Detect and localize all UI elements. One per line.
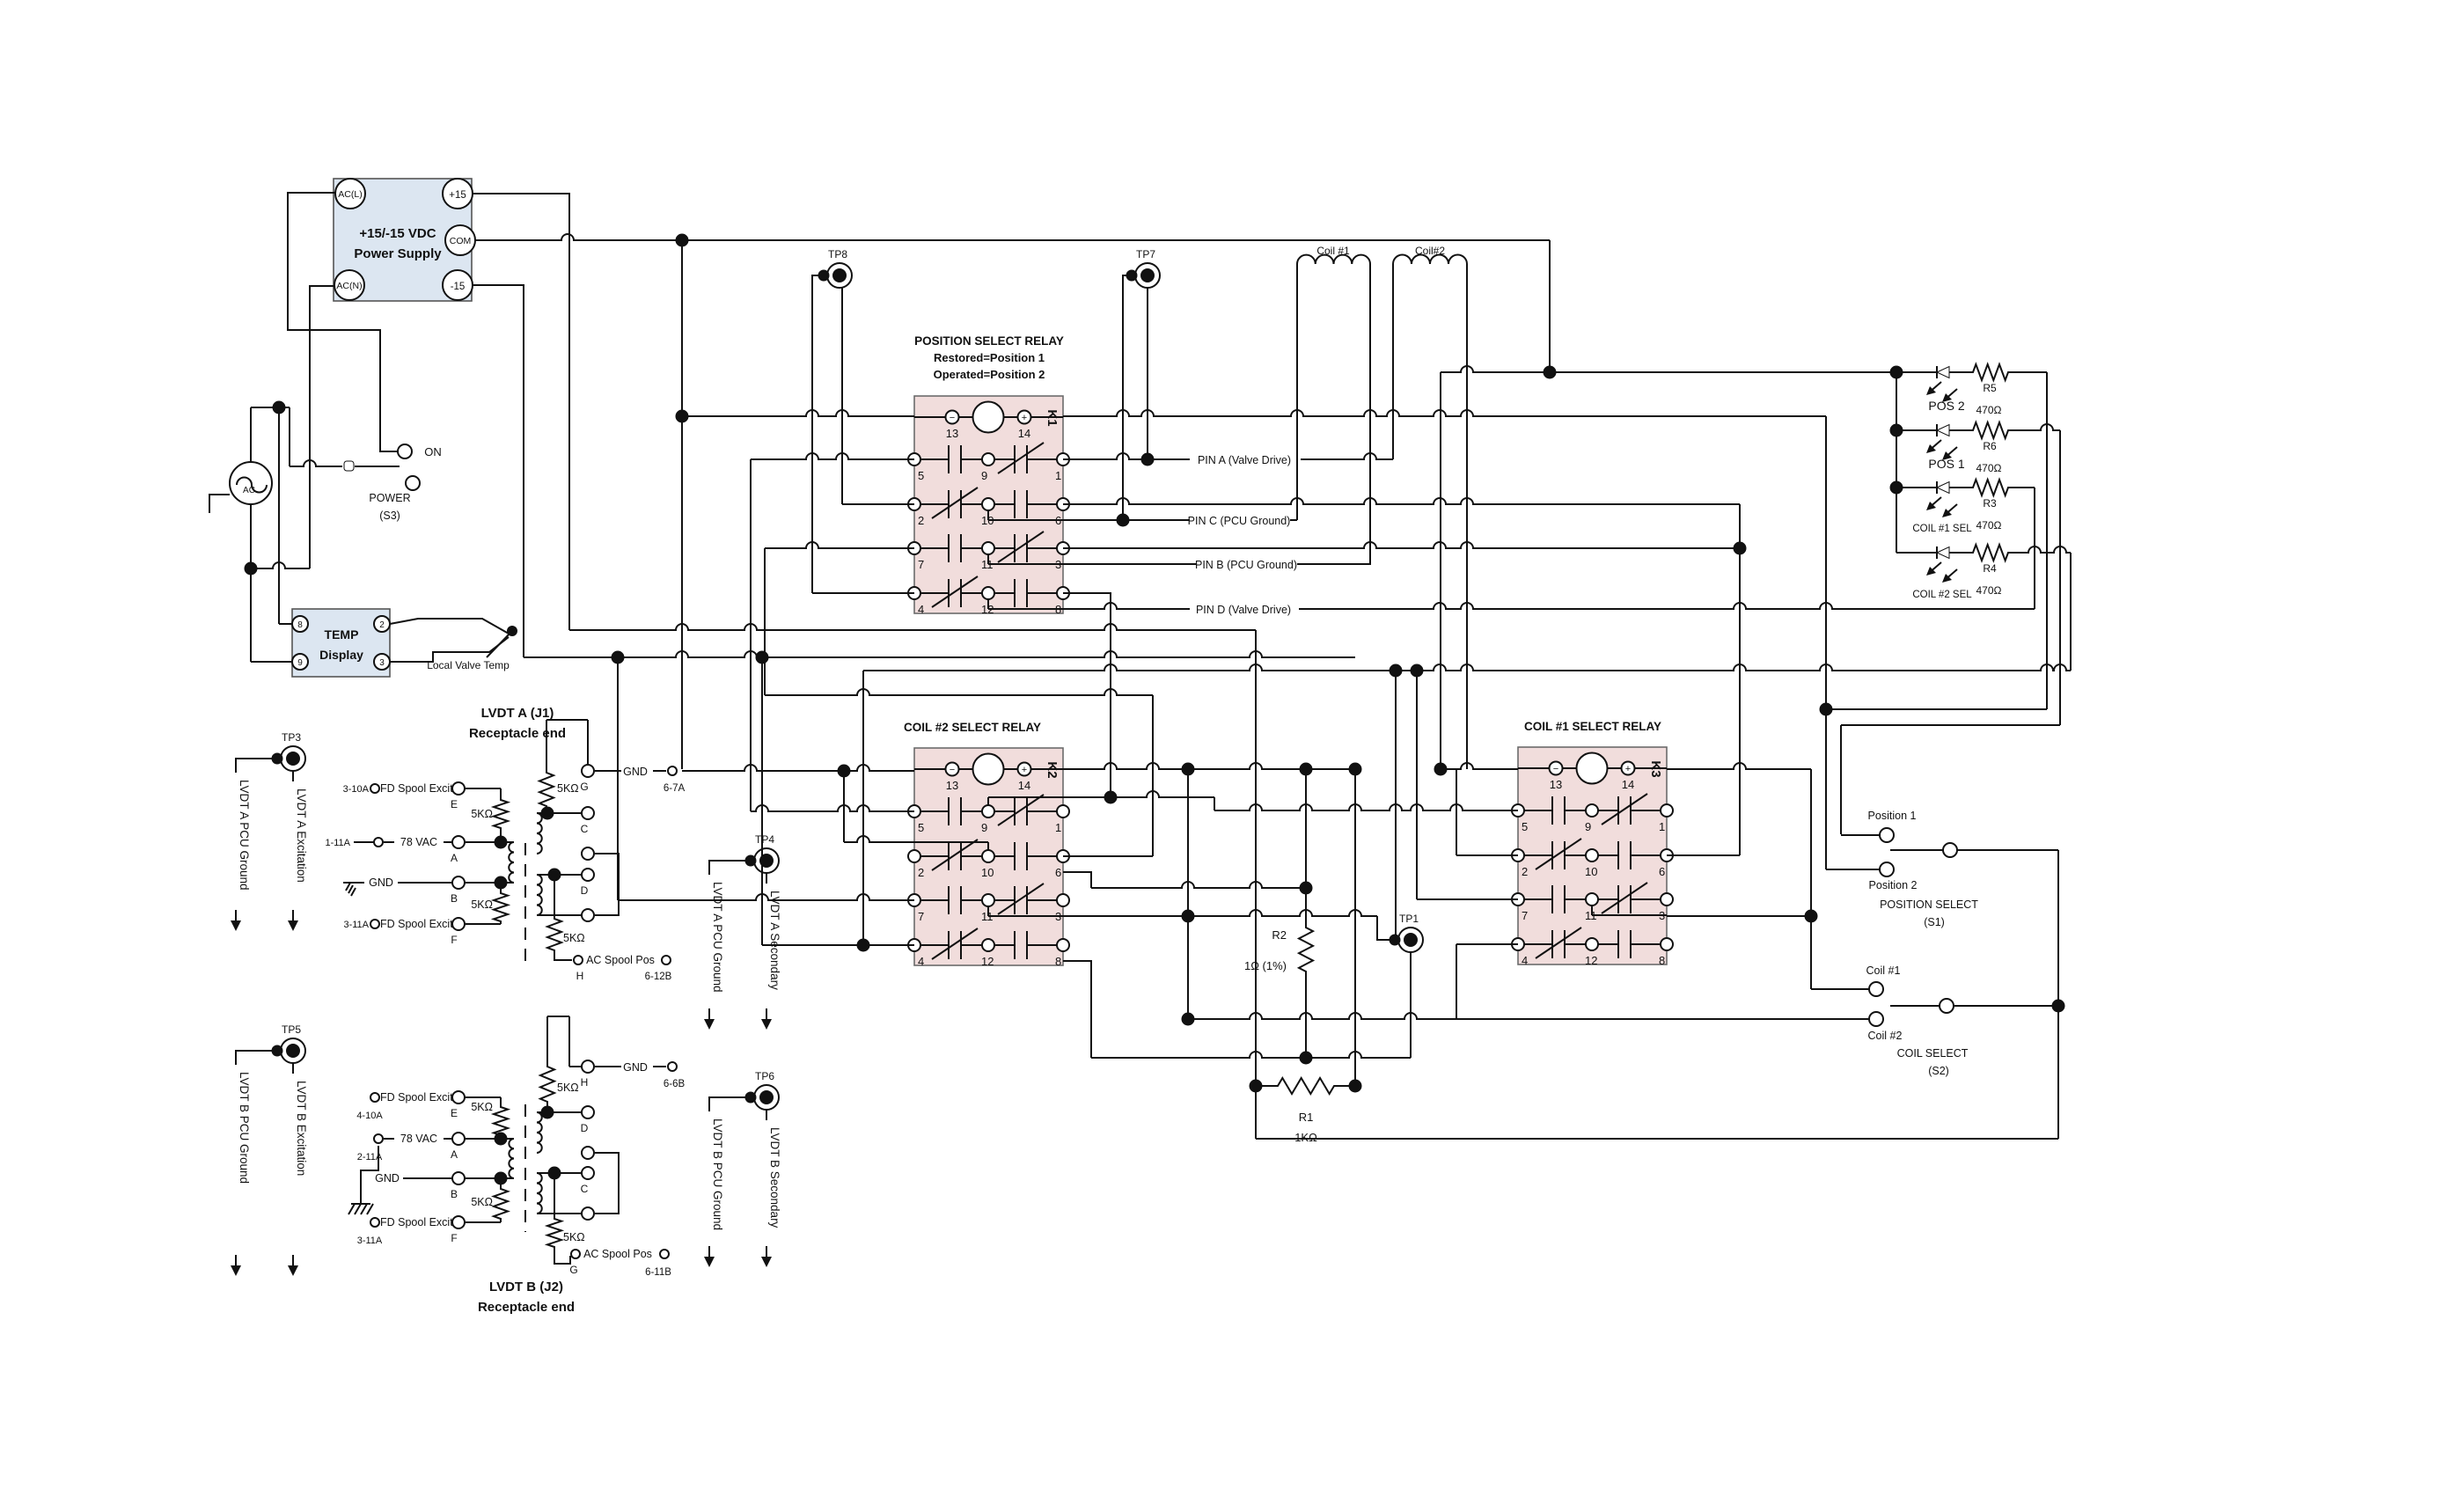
coil2 right leg [1466,264,1468,769]
svg-text:K3: K3 [1648,760,1663,777]
svg-text:6-12B: 6-12B [645,972,672,982]
wire AC(L) to ON [288,193,398,451]
svg-text:(S2): (S2) [1928,1065,1949,1077]
svg-text:TP1: TP1 [1399,913,1419,925]
svg-text:1: 1 [1659,820,1665,833]
svg-text:5: 5 [918,821,924,834]
svg-text:Receptacle end: Receptacle end [478,1300,575,1315]
wire K2 pin10 riser [844,771,914,842]
5K resistor LVDT B lower-left [471,1178,508,1222]
svg-text:Position 2: Position 2 [1869,879,1918,891]
svg-text:POS 1: POS 1 [1928,457,1964,471]
svg-text:F: F [451,1232,457,1244]
svg-text:12: 12 [981,955,994,968]
svg-text:12: 12 [1585,954,1597,967]
svg-text:5: 5 [918,469,924,482]
LVDT B title [478,1280,575,1315]
svg-text:D: D [581,1122,589,1134]
svg-text:H: H [581,1076,589,1089]
wire K1 pin4 line [812,592,914,594]
svg-text:COM: COM [450,236,472,246]
svg-text:TP7: TP7 [1136,248,1155,260]
coil1 right leg [1369,264,1371,565]
wire 824 line (POS1 LED return) [1841,725,2060,834]
svg-text:5KΩ: 5KΩ [563,1231,585,1243]
LVDT A pin G [582,765,594,777]
svg-text:POWER: POWER [369,492,410,504]
label LVDT A PCU Ground (left) [231,780,251,931]
svg-text:Restored=Position 1: Restored=Position 1 [934,351,1045,364]
wire TP3 stubs [236,759,293,781]
svg-text:FD Spool Excit: FD Spool Excit [380,782,453,795]
5K resistor LVDT A lower-right [547,875,585,955]
svg-text:A: A [451,852,458,864]
svg-text:7: 7 [918,558,924,571]
LVDT A left pin B [356,876,465,905]
svg-text:4-10A: 4-10A [356,1111,383,1121]
svg-text:H: H [576,970,584,982]
LED COIL #2 SEL [1896,546,1972,600]
wire K2 pin6 riser [1063,695,1153,856]
svg-text:LVDT B (J2): LVDT B (J2) [489,1280,563,1294]
svg-text:AC Spool Pos: AC Spool Pos [583,1248,652,1260]
svg-text:−: − [950,413,955,423]
svg-text:14: 14 [1018,779,1030,792]
svg-text:6: 6 [1659,865,1665,878]
svg-text:−: − [1553,764,1558,774]
LVDT B secondary upper winding [537,1112,542,1153]
wire R3 out [2010,488,2035,609]
wire E-B to resistor [465,1096,501,1098]
svg-text:AC Spool Pos: AC Spool Pos [586,954,655,966]
svg-text:1KΩ: 1KΩ [1294,1131,1317,1144]
power supply terminal COM [445,225,475,255]
LVDT A secondary upper winding [537,813,542,854]
svg-text:FD Spool Excit: FD Spool Excit [380,1216,453,1228]
resistor R1 [1256,1078,1355,1144]
svg-text:D: D [581,884,589,897]
svg-text:5KΩ: 5KΩ [563,932,585,944]
inductor Coil #2 [1393,245,1467,264]
test point TP4 [746,833,780,873]
svg-text:+: + [1022,413,1027,423]
wire H-line [569,1060,581,1067]
wire PIN A (valve drive) [1063,453,1393,466]
wire B junction B [465,1173,514,1184]
svg-text:2: 2 [918,514,924,527]
svg-text:8: 8 [1659,954,1665,967]
svg-text:(S1): (S1) [1924,916,1945,928]
svg-text:1Ω (1%): 1Ω (1%) [1244,959,1287,972]
svg-text:B: B [451,1188,458,1200]
wire 806 line (POS2 LED return) [1826,708,2047,710]
svg-text:AC(L): AC(L) [338,189,362,200]
wire B junction [465,877,514,889]
svg-text:POSITION SELECT RELAY: POSITION SELECT RELAY [914,334,1064,348]
power supply terminal -15 [443,270,473,300]
wire K2 pin12 to TP1 [1063,952,1411,1064]
wire K1 pin2 line [842,503,914,505]
temp display terminal 3 [374,654,390,670]
wire AC top to switch common [251,402,342,467]
svg-text:R2: R2 [1272,928,1287,942]
wire K1 pin5 line [751,453,914,811]
switch S3 ON contact [398,444,442,458]
svg-text:470Ω: 470Ω [1976,519,2002,532]
svg-text:Coil #1: Coil #1 [1316,245,1350,257]
wire -15 bus [473,285,1355,664]
wire TP8 left riser to K1 pin4 [812,275,825,593]
wire K3 coil feed [1440,372,1441,769]
5K resistor LVDT A lower-left [471,883,508,924]
relay K2 (coil #2 select relay) [908,748,1069,968]
svg-text:TP5: TP5 [282,1023,301,1036]
svg-text:5: 5 [1522,820,1528,833]
LVDT core (dashed) [524,843,526,970]
LVDT B left pin F [357,1216,465,1246]
5K resistor LVDT A upper-left [471,788,508,842]
svg-text:FD Spool Excit: FD Spool Excit [380,1091,453,1104]
wire K3 pin11 exit [1667,915,1811,917]
K2 title [904,721,1041,734]
wire TP4 stubs [709,861,766,884]
ground symbol LVDT A [343,883,356,896]
K1 title [914,334,1064,381]
wire K2 pin10 area to R2 [1063,769,1312,894]
svg-text:Power Supply: Power Supply [354,246,442,261]
svg-text:Receptacle end: Receptacle end [469,726,566,741]
svg-text:Operated=Position 2: Operated=Position 2 [934,368,1045,381]
svg-text:3: 3 [379,658,385,668]
svg-text:470Ω: 470Ω [1976,462,2002,474]
wire K2 pin4 line [762,657,914,951]
wire K1 pin7 line [765,542,914,695]
svg-text:LVDT A Secondary: LVDT A Secondary [768,891,781,990]
svg-text:+: + [1625,764,1631,774]
wire secondary bottom [537,914,581,916]
wire R6 out [2010,424,2060,725]
svg-text:TEMP: TEMP [325,627,359,642]
svg-text:14: 14 [1622,778,1634,791]
wire AC left stub [209,495,230,513]
test point TP1 [1390,665,1424,953]
wire switch common stub [355,466,400,467]
wire K3 coil out [1667,763,1817,989]
ground symbol LVDT B [348,1146,378,1214]
wire K1 pin8 riser [1063,593,1111,797]
svg-text:R6: R6 [1983,440,1997,452]
label LVDT B PCU Ground (left) [231,1072,251,1276]
svg-text:LVDT A PCU Ground: LVDT A PCU Ground [238,780,251,891]
svg-text:14: 14 [1018,427,1030,440]
svg-text:Coil #2: Coil #2 [1868,1030,1903,1042]
LVDT A left pin F [343,918,465,946]
svg-text:A: A [451,1148,458,1161]
svg-text:LVDT B Excitation: LVDT B Excitation [295,1081,308,1176]
svg-text:2: 2 [918,866,924,879]
svg-text:9: 9 [981,821,987,834]
LVDT B left pin A [357,1133,465,1162]
svg-text:5KΩ: 5KΩ [557,782,579,795]
switch S3 common contact [344,461,354,471]
wire TP7 left riser to PIN C line [1118,275,1133,526]
svg-text:13: 13 [946,427,958,440]
svg-text:GND: GND [623,766,648,778]
svg-text:E: E [451,1107,458,1119]
svg-text:1: 1 [1055,821,1061,834]
wire K1 pin7 to K2 pin6 [765,689,1153,695]
temp display terminal 9 [292,654,308,670]
temp display terminal 8 [292,616,308,632]
svg-text:2: 2 [379,620,385,630]
svg-text:COIL #2 SELECT RELAY: COIL #2 SELECT RELAY [904,721,1041,734]
LVDT A secondary lower winding [537,875,542,915]
svg-text:470Ω: 470Ω [1976,584,2002,597]
svg-text:−: − [950,765,955,775]
wire K3 pin4 drop [1456,944,1518,1019]
svg-text:F: F [451,934,457,946]
wire K3 pin7 riser [1412,665,1519,900]
LED feed vertical [1896,372,1897,553]
svg-text:-15: -15 [451,282,466,292]
svg-text:Coil #1: Coil #1 [1866,964,1901,977]
svg-text:POSITION SELECT: POSITION SELECT [1880,898,1978,911]
5K resistor LVDT B lower-right [547,1173,585,1250]
wire TP8 right riser to K1 pin2 [841,287,843,504]
test point TP5 [273,1023,306,1063]
svg-text:+: + [1022,765,1027,775]
test point TP7 [1127,248,1161,288]
svg-text:AC(N): AC(N) [336,281,362,291]
svg-text:13: 13 [1550,778,1562,791]
wire G-line [580,781,588,793]
svg-text:G: G [569,1264,577,1276]
power supply terminal AC(N) [334,270,364,300]
svg-text:LVDT B PCU Ground: LVDT B PCU Ground [711,1118,724,1230]
LVDT B left pin E [356,1091,465,1121]
LVDT B pin C [537,1167,594,1195]
svg-text:Local Valve Temp: Local Valve Temp [427,659,510,671]
svg-text:E: E [451,798,458,810]
wire secondary bottom B [537,1213,581,1214]
svg-text:6-6B: 6-6B [664,1079,686,1089]
svg-text:C: C [581,1183,589,1195]
5K resistor LVDT A upper-right [539,720,579,813]
LVDT B pin D [537,1106,594,1134]
wire K2 pin11 exit [1063,769,1390,1025]
LVDT A primary winding [509,842,514,883]
svg-text:Position 1: Position 1 [1868,810,1917,822]
wire 762 line [863,664,2071,671]
svg-text:7: 7 [1522,909,1528,922]
wire H GND 6-6B [595,1061,685,1089]
svg-text:+15: +15 [449,190,466,201]
svg-text:PIN A (Valve Drive): PIN A (Valve Drive) [1198,454,1291,466]
LVDT B left pin B [375,1172,465,1200]
svg-text:(S3): (S3) [379,510,400,522]
wire TP5 stubs [236,1051,293,1074]
wire K2 coil out to R1 [1063,763,1361,1092]
svg-text:3-11A: 3-11A [357,1236,383,1246]
svg-text:9: 9 [297,658,303,668]
svg-text:4: 4 [1522,954,1528,967]
svg-text:R4: R4 [1983,562,1997,575]
svg-text:470Ω: 470Ω [1976,404,2002,416]
TEMP display block [292,609,390,677]
svg-text:5KΩ: 5KΩ [471,1101,493,1113]
switch S1 position select [1826,810,2058,928]
LVDT A left pin E [343,782,465,810]
svg-text:FD Spool Excit: FD Spool Excit [380,918,453,930]
5K resistor LVDT B upper-left [471,1097,508,1139]
svg-text:Coil#2: Coil#2 [1415,245,1445,257]
svg-text:R5: R5 [1983,382,1997,394]
svg-text:5KΩ: 5KΩ [471,898,493,911]
svg-text:78 VAC: 78 VAC [400,836,437,848]
wire PIN C (PCU ground) [1063,515,1297,527]
svg-text:C: C [581,823,589,835]
wire AC bottom to TEMP pin 9 [251,568,292,662]
wire F to resistor B [465,1221,501,1223]
temperature probe [390,619,517,671]
svg-text:LVDT B PCU Ground: LVDT B PCU Ground [238,1072,251,1184]
wire bottom bus [1250,630,2059,1139]
K3 title [1524,720,1661,733]
svg-text:9: 9 [1585,820,1591,833]
test point TP8 [819,248,853,288]
svg-text:+15/-15 VDC: +15/-15 VDC [359,226,436,241]
svg-text:9: 9 [981,469,987,482]
svg-text:LVDT A (J1): LVDT A (J1) [481,706,554,721]
LVDT B core (dashed) [524,1104,526,1232]
wire K2 pin7 line [618,657,914,900]
wire POS2 net riser [1821,416,1832,869]
svg-text:LVDT B Secondary: LVDT B Secondary [768,1127,781,1228]
wire K1 pin3 line [1063,542,1746,554]
relay K3 (coil #1 select relay) [1512,747,1673,967]
LVDT A pin C [537,807,594,835]
wire PIN D (valve drive) [1063,603,2035,616]
wire LED anode feed [1441,366,1903,494]
svg-text:7: 7 [918,910,924,923]
temp display terminal 2 [374,616,390,632]
LVDT A secondary mid terminals [582,847,619,921]
wire R5 out [2010,372,2047,709]
svg-text:6-7A: 6-7A [664,783,686,794]
wire AC Spool Pos 6-11B [554,1248,671,1278]
svg-text:PIN D (Valve Drive): PIN D (Valve Drive) [1196,604,1291,616]
wire K1 coil line [682,410,914,416]
svg-text:6: 6 [1055,866,1061,879]
svg-text:K1: K1 [1045,409,1060,426]
LED POS 2 [1896,366,1971,413]
svg-text:R1: R1 [1299,1111,1314,1124]
svg-text:10: 10 [1585,865,1597,878]
svg-text:G: G [580,781,588,793]
svg-text:LVDT A PCU Ground: LVDT A PCU Ground [711,882,724,993]
resistor R2 [1244,888,1313,1058]
LED POS 1 [1896,424,1971,471]
resistor R4 [1971,545,2010,597]
svg-text:6-11B: 6-11B [645,1267,671,1278]
AC source [230,462,272,504]
wire COM riser to K1/K2 coils [677,240,688,769]
test point TP3 [273,731,306,771]
svg-text:5KΩ: 5KΩ [471,808,493,820]
relay K1 (position select relay) [908,396,1069,616]
wire K1 pin5 to K2 pin5 [751,805,914,811]
test point TP6 [746,1070,780,1110]
wire coil select feed [2053,850,2064,1139]
svg-text:GND: GND [375,1172,400,1184]
svg-text:COIL #2 SEL: COIL #2 SEL [1912,590,1972,600]
svg-text:ON: ON [424,445,442,458]
svg-text:4: 4 [918,603,924,616]
wire E to resistor [465,788,501,789]
svg-text:B: B [451,892,458,905]
wire K3 coil line [1435,763,1519,775]
LVDT B pin H [581,1060,594,1089]
svg-text:TP8: TP8 [828,248,847,260]
wire TP6 stubs [709,1097,766,1120]
resistor R5 [1971,364,2010,416]
label POWER (S3) [369,492,410,522]
svg-text:POS 2: POS 2 [1928,399,1964,413]
svg-text:5KΩ: 5KΩ [471,1196,493,1208]
wire A junction [465,837,514,848]
resistor R6 [1971,422,2010,474]
svg-text:78 VAC: 78 VAC [400,1133,437,1145]
wire A junction B [465,1133,514,1145]
coil1 left leg [1296,264,1298,520]
svg-text:TP3: TP3 [282,731,301,744]
svg-text:GND: GND [369,876,393,889]
svg-text:LVDT A Excitation: LVDT A Excitation [295,788,308,883]
LVDT A left pin A [325,836,465,864]
power supply terminal AC(L) [335,179,365,209]
svg-text:8: 8 [1055,955,1061,968]
wire COM bus [475,234,1550,372]
LVDT B secondary lower winding [537,1173,542,1214]
LED COIL #1 SEL [1896,481,1972,534]
svg-text:3-10A: 3-10A [343,784,370,795]
svg-text:10: 10 [981,866,994,879]
label LVDT A Excitation [288,788,308,931]
svg-text:TP4: TP4 [755,833,774,846]
wire AC bottom [246,286,335,575]
svg-text:K2: K2 [1045,761,1060,778]
wire G GND 6-7A [546,720,685,794]
label LVDT A PCU Ground (right) [704,882,724,1030]
svg-text:2: 2 [1522,865,1528,878]
wire K2 pin9 to K3 pin5 [1063,791,1518,810]
label LVDT A Secondary [761,891,781,1030]
wire dot to TEMP pin 8 [279,407,292,624]
svg-text:COIL SELECT: COIL SELECT [1897,1047,1969,1060]
wire coil#2 select line [1188,1013,1869,1019]
svg-text:13: 13 [946,779,958,792]
coil2 left leg [1392,264,1394,459]
5K resistor LVDT B upper-right [540,1016,579,1112]
LVDT B primary winding [509,1139,514,1178]
wire K1 coil line right [1063,410,1826,416]
svg-text:GND: GND [623,1061,648,1074]
wire TP7 right riser to PIN A line [1142,287,1154,466]
power supply +15/-15 VDC block [334,179,472,301]
svg-text:8: 8 [297,620,303,630]
wire +15 bus [473,194,1256,630]
svg-text:PIN C (PCU Ground): PIN C (PCU Ground) [1188,515,1291,527]
